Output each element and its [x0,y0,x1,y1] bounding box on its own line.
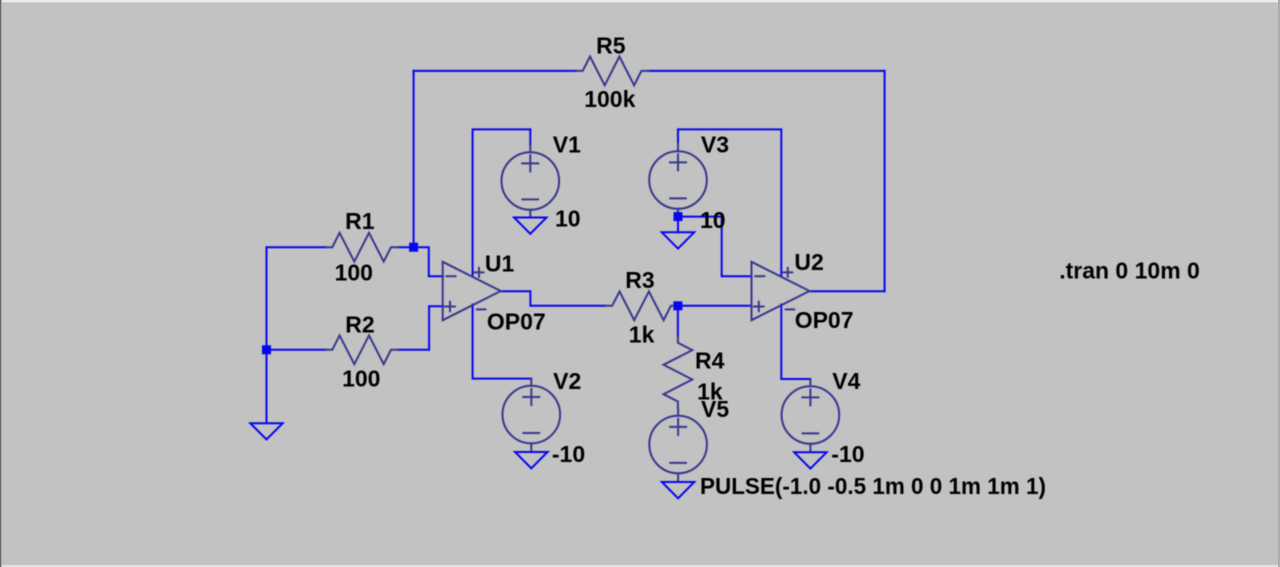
resistor R5 [576,57,648,86]
svg-text:R3: R3 [625,267,654,293]
wire left input rail vertical [266,247,268,423]
V2 circle [503,386,561,444]
voltage source V5 [649,409,707,482]
U2 inverting input mark [755,275,764,277]
svg-text:V5: V5 [701,396,729,422]
wire top feedback left of R5 [414,70,577,72]
op-amp U2 [752,262,810,320]
svg-text:OP07: OP07 [795,307,854,333]
V5 plus mark [670,419,686,435]
U1 V- supply mark [477,308,486,310]
voltage source V2 [503,379,561,452]
U2 V+ supply mark [783,268,792,277]
wire R2 left [267,349,327,351]
wire R1 right to node A [398,246,414,248]
V4 plus mark [802,389,818,405]
wire U1 output to R3 [501,291,606,306]
svg-text:R2: R2 [345,311,374,337]
svg-text:10: 10 [700,207,726,233]
V5 top lead [677,409,679,416]
resistor R1 [326,233,398,262]
ground (V2) [515,452,547,468]
V4 minus mark [803,432,819,434]
wire node A to U1 inverting input [414,247,443,276]
V4 bottom lead [809,444,811,452]
svg-text:V3: V3 [701,132,729,158]
U1 V+ supply mark [475,268,484,277]
V1 bottom lead [529,210,531,218]
wire V1 pin stub [529,129,531,145]
op-amp U1 [443,262,501,320]
wire U2 output to right rail [810,290,885,292]
svg-text:U1: U1 [485,251,515,277]
node left-rail junction [262,345,271,354]
U1 triangle body [443,262,501,320]
svg-text:R4: R4 [695,348,725,374]
svg-text:100: 100 [342,365,380,391]
resistor R3 [606,291,678,320]
V4 top lead [809,379,811,386]
V1 top lead [529,145,531,152]
window frame bottom bevel [0,565,1280,567]
ground (V3) [662,232,694,248]
wire V3 to U2 V+ [678,129,781,276]
wire V3 pin stub [677,129,679,144]
svg-text:V4: V4 [832,368,860,394]
wire node B down to R4 [677,306,679,337]
node B junction [673,301,682,310]
svg-text:100k: 100k [584,86,635,112]
V4 circle [782,386,840,444]
ground (left rail) [250,423,282,439]
svg-text:U2: U2 [794,249,823,275]
svg-text:OP07: OP07 [487,309,546,335]
V2 bottom lead [530,443,532,451]
svg-text:R5: R5 [596,32,626,58]
voltage source V3 [649,144,707,217]
window frame right bevel [1278,0,1280,567]
svg-text:100: 100 [335,260,373,286]
wire V3 minus to U2 inverting input [678,217,752,277]
V3 plus mark [670,154,686,170]
svg-text:.tran 0 10m 0: .tran 0 10m 0 [1059,258,1200,284]
svg-text:-10: -10 [552,441,585,467]
V2 minus mark [524,432,540,434]
voltage source V4 [782,379,840,452]
V1 plus mark [522,155,538,171]
wire U1 V- to V2 [473,304,532,378]
resistor R2 [326,335,398,364]
wire R1 left [267,246,327,248]
voltage source V1 [502,145,560,218]
U1 noninverting input mark [445,302,455,312]
svg-text:PULSE(-1.0 -0.5 1m 0 0 1m 1m 1: PULSE(-1.0 -0.5 1m 0 0 1m 1m 1) [700,473,1046,499]
node V3-minus junction [674,212,683,221]
V1 minus mark [523,198,539,200]
window frame left bevel [0,0,1,567]
svg-text:V1: V1 [553,132,581,158]
V2 plus mark [523,389,539,405]
V3 top lead [677,144,679,151]
V5 bottom lead [677,473,679,481]
ground (V4) [794,452,826,468]
U2 V- supply mark [786,308,795,310]
wire left rail down to node A [413,71,415,247]
V2 top lead [530,379,532,386]
V3 bottom lead [677,209,679,217]
wire top feedback right of R5 [648,70,884,72]
ground (V1) [514,218,546,234]
wire R2 right to U1 noninverting input [398,306,443,350]
node A junction [409,243,418,252]
U2 triangle body [752,262,810,320]
wire node B to U2 noninverting input [678,305,752,307]
V5 minus mark [670,462,686,464]
svg-text:10: 10 [555,205,581,231]
svg-text:R1: R1 [345,208,375,234]
wire U2 V- to V4 [781,304,810,379]
svg-text:V2: V2 [553,368,581,394]
wire V1 to U1 V+ [473,129,531,276]
U2 noninverting input mark [754,302,764,312]
wire V3 minus to ground stub [677,217,679,233]
resistor R4 [664,337,693,409]
V3 minus mark [670,197,686,199]
V5 circle [649,416,707,474]
V3 circle [649,151,707,209]
svg-text:-10: -10 [831,441,864,467]
V1 circle [502,152,560,210]
ground (V5) [662,482,694,498]
window frame top bevel [0,0,1280,2]
wire right rail down to U2 output [884,71,886,291]
svg-text:1k: 1k [629,321,655,347]
U1 inverting input mark [447,275,456,277]
